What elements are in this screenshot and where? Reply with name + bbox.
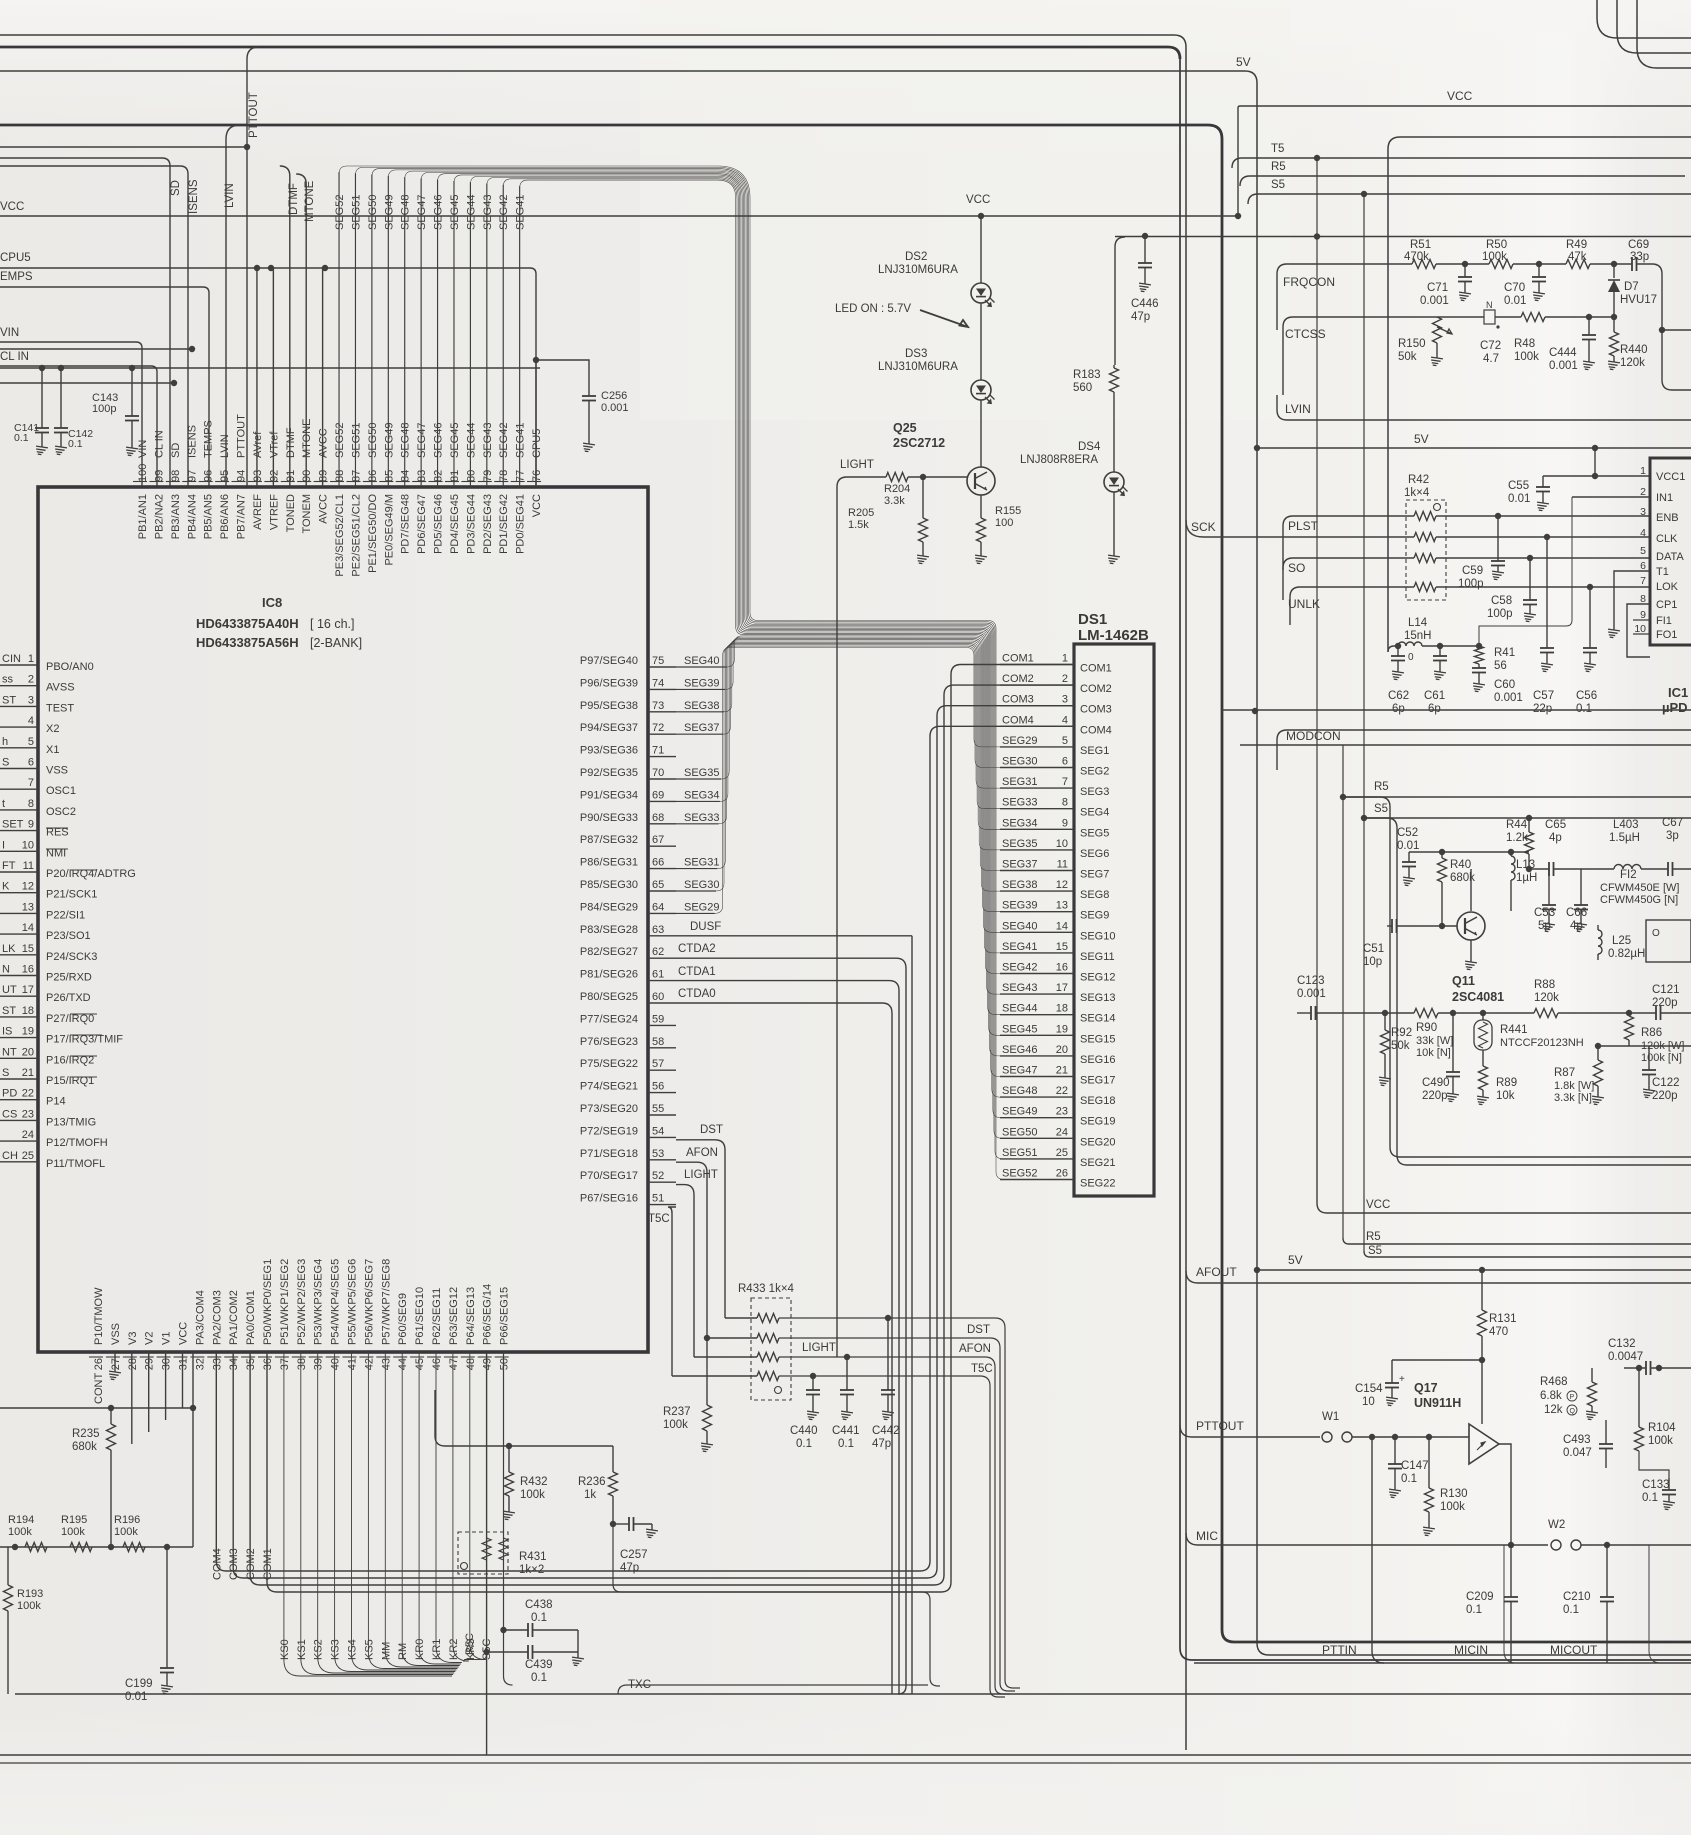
svg-text:100p: 100p: [92, 403, 116, 415]
svg-text:V1: V1: [161, 1332, 173, 1345]
svg-text:SEG16: SEG16: [1080, 1054, 1115, 1066]
wire R433 row1: [725, 1317, 757, 1319]
svg-text:11: 11: [1057, 859, 1068, 871]
svg-text:17: 17: [22, 984, 34, 996]
svg-text:12: 12: [1056, 879, 1068, 891]
svg-text:0.01: 0.01: [1508, 493, 1530, 505]
svg-text:P61/SEG10: P61/SEG10: [414, 1287, 426, 1345]
svg-text:0.1: 0.1: [796, 1438, 812, 1450]
svg-text:COM3: COM3: [228, 1548, 240, 1580]
svg-text:LIGHT: LIGHT: [802, 1342, 836, 1354]
svg-text:C438: C438: [525, 1599, 553, 1611]
svg-text:25: 25: [1056, 1147, 1068, 1159]
svg-text:ST: ST: [2, 1005, 16, 1017]
wire LIGHT to base with R204: [847, 476, 886, 478]
svg-text:PA2/COM3: PA2/COM3: [211, 1290, 223, 1345]
svg-text:P90/SEG33: P90/SEG33: [580, 812, 638, 824]
svg-text:P13/TMIG: P13/TMIG: [46, 1116, 96, 1128]
svg-text:19: 19: [1056, 1023, 1068, 1035]
svg-text:PTTIN: PTTIN: [1322, 1643, 1357, 1657]
wire T1 to ground: [1614, 571, 1650, 630]
svg-text:PD1/SEG42: PD1/SEG42: [498, 494, 510, 554]
svg-text:SEG46: SEG46: [433, 195, 445, 230]
svg-text:P22/SI1: P22/SI1: [46, 909, 85, 921]
label COM4-COM1 rotated: [211, 1548, 274, 1580]
wire y1408 line: [0, 1407, 193, 1409]
svg-text:SEG50: SEG50: [1002, 1126, 1037, 1138]
net MODCON line: [1222, 709, 1691, 711]
svg-text:DTMF: DTMF: [285, 427, 297, 458]
svg-text:PTTOUT: PTTOUT: [1196, 1419, 1244, 1433]
IC8 top pin labels and numbers: [133, 414, 543, 577]
svg-text:0.1: 0.1: [1576, 703, 1592, 715]
svg-text:CLK: CLK: [1656, 533, 1678, 545]
junction R204-R205: [920, 474, 926, 480]
svg-text:C446: C446: [1131, 298, 1159, 310]
svg-text:[ 16 ch.]: [ 16 ch.]: [310, 617, 354, 631]
svg-text:0.1: 0.1: [14, 432, 29, 444]
svg-text:Q: Q: [1570, 1408, 1576, 1415]
svg-text:100k: 100k: [8, 1526, 32, 1538]
svg-text:TEST: TEST: [46, 702, 74, 714]
svg-text:C71: C71: [1427, 282, 1448, 294]
svg-text:COM1: COM1: [1002, 653, 1034, 665]
wire CPU5 column: [535, 360, 537, 487]
svg-text:26: 26: [1056, 1168, 1068, 1180]
svg-text:PB4/AN4: PB4/AN4: [186, 494, 198, 539]
svg-text:R131: R131: [1489, 1313, 1517, 1325]
svg-text:48: 48: [465, 1358, 477, 1370]
svg-text:PA1/COM2: PA1/COM2: [228, 1290, 240, 1345]
svg-text:LED ON : 5.7V: LED ON : 5.7V: [835, 303, 911, 315]
label SEG52-41 rotated upper: [334, 195, 527, 230]
wire IN1 drop: [1479, 497, 1572, 646]
svg-text:C490: C490: [1422, 1077, 1450, 1089]
svg-text:VSS: VSS: [110, 1323, 122, 1345]
svg-text:P21/SCK1: P21/SCK1: [46, 889, 97, 901]
svg-text:SEG42: SEG42: [498, 423, 510, 458]
svg-text:59: 59: [652, 1013, 664, 1025]
svg-text:82: 82: [433, 470, 445, 482]
svg-text:100: 100: [137, 464, 149, 482]
junction right edge stub: [1659, 327, 1665, 333]
svg-text:P51/WKP1/SEG2: P51/WKP1/SEG2: [279, 1259, 291, 1345]
capacitor C142: [60, 368, 62, 428]
svg-text:SEG50: SEG50: [367, 423, 379, 458]
svg-text:COM4: COM4: [1002, 714, 1034, 726]
svg-text:C257: C257: [620, 1549, 648, 1561]
svg-text:R196: R196: [114, 1514, 140, 1526]
svg-text:22p: 22p: [1533, 703, 1552, 715]
svg-text:22: 22: [1056, 1085, 1068, 1097]
svg-text:LIGHT: LIGHT: [684, 1169, 718, 1181]
svg-text:15: 15: [22, 943, 34, 955]
svg-text:COM1: COM1: [262, 1548, 274, 1580]
svg-text:9: 9: [1062, 817, 1068, 829]
svg-text:SEG39: SEG39: [684, 677, 719, 689]
svg-text:3p: 3p: [1666, 830, 1679, 842]
svg-text:UT: UT: [2, 984, 17, 996]
svg-text:SEG42: SEG42: [1002, 962, 1037, 974]
svg-text:T5: T5: [1271, 143, 1284, 155]
svg-text:PLST: PLST: [1288, 519, 1319, 533]
svg-text:56: 56: [652, 1081, 664, 1093]
svg-text:P63/SEG12: P63/SEG12: [448, 1287, 460, 1345]
svg-text:44: 44: [397, 1358, 409, 1370]
wire PTTIN MICIN MICOUT drops: [1372, 1437, 1384, 1663]
svg-text:R50: R50: [1486, 239, 1507, 251]
svg-text:38: 38: [296, 1358, 308, 1370]
svg-text:45: 45: [414, 1358, 426, 1370]
svg-text:SEG35: SEG35: [684, 767, 719, 779]
svg-text:85: 85: [383, 470, 395, 482]
svg-text:17: 17: [1056, 982, 1068, 994]
svg-text:100k: 100k: [520, 1489, 545, 1501]
svg-text:PD3/SEG44: PD3/SEG44: [465, 494, 477, 554]
svg-text:2SC4081: 2SC4081: [1452, 990, 1504, 1004]
svg-text:13: 13: [1056, 900, 1068, 912]
svg-text:VIN: VIN: [137, 440, 149, 458]
svg-text:MM: MM: [380, 1642, 392, 1660]
svg-text:X1: X1: [46, 744, 59, 756]
junction SD y390: [171, 380, 177, 386]
svg-text:R42: R42: [1408, 474, 1429, 486]
svg-text:23: 23: [1056, 1106, 1068, 1118]
svg-text:R440: R440: [1620, 344, 1648, 356]
svg-text:RM: RM: [397, 1643, 409, 1660]
svg-text:SEG30: SEG30: [1002, 756, 1037, 768]
svg-text:SEG51: SEG51: [350, 423, 362, 458]
svg-text:98: 98: [170, 470, 182, 482]
svg-text:18: 18: [1056, 1003, 1068, 1015]
svg-text:Q25: Q25: [893, 421, 917, 435]
svg-text:IC1: IC1: [1668, 685, 1688, 700]
svg-text:FT: FT: [2, 860, 16, 872]
wire top bus line 2 (PTTOUT feed, thick): [0, 47, 1180, 59]
svg-text:C123: C123: [1297, 975, 1325, 987]
svg-text:42: 42: [363, 1358, 375, 1370]
svg-text:KS5: KS5: [363, 1639, 375, 1660]
svg-text:FI2: FI2: [1620, 869, 1637, 881]
svg-text:VTref: VTref: [268, 431, 280, 458]
svg-text:93: 93: [252, 470, 264, 482]
svg-text:CTCSS: CTCSS: [1285, 327, 1326, 341]
svg-text:62: 62: [652, 946, 664, 958]
svg-text:CPU5: CPU5: [0, 252, 31, 264]
svg-text:47p: 47p: [872, 1438, 891, 1450]
svg-text:32: 32: [194, 1358, 206, 1370]
svg-text:PTTOUT: PTTOUT: [236, 414, 248, 458]
svg-text:R44: R44: [1506, 819, 1528, 831]
svg-text:100p: 100p: [1458, 578, 1484, 590]
svg-text:COM4: COM4: [211, 1548, 223, 1580]
svg-text:1: 1: [1062, 653, 1068, 665]
svg-text:29: 29: [144, 1358, 156, 1370]
svg-text:P66/SEG15: P66/SEG15: [499, 1287, 511, 1345]
svg-text:TXC: TXC: [628, 1679, 651, 1691]
svg-text:KS3: KS3: [330, 1639, 342, 1660]
svg-text:SEG51: SEG51: [350, 195, 362, 230]
svg-text:73: 73: [652, 700, 664, 712]
svg-text:SEG37: SEG37: [684, 722, 719, 734]
svg-text:IC8: IC8: [262, 595, 282, 610]
wire R433 row3 LIGHT AFON: [694, 1356, 757, 1358]
svg-text:P62/SEG11: P62/SEG11: [431, 1288, 443, 1345]
svg-text:39: 39: [313, 1358, 325, 1370]
svg-text:R5: R5: [1366, 1231, 1381, 1243]
svg-text:SEG8: SEG8: [1080, 889, 1109, 901]
svg-text:MODCON: MODCON: [1286, 729, 1341, 743]
svg-text:P94/SEG37: P94/SEG37: [580, 722, 638, 734]
svg-text:47p: 47p: [620, 1562, 639, 1574]
wire Q17 output: [1499, 1444, 1511, 1545]
svg-text:SEG51: SEG51: [1002, 1147, 1037, 1159]
svg-text:0.001: 0.001: [1494, 692, 1523, 704]
junction C70: [1536, 261, 1542, 267]
svg-text:3.3k [N]: 3.3k [N]: [1554, 1092, 1592, 1104]
svg-text:R41: R41: [1494, 647, 1515, 659]
junction R92: [1382, 1010, 1388, 1016]
svg-text:T5C: T5C: [971, 1363, 993, 1375]
svg-text:AVSS: AVSS: [46, 682, 75, 694]
wire 5V vertical right: [1254, 445, 1260, 451]
svg-text:Q11: Q11: [1452, 974, 1475, 988]
svg-text:DS4: DS4: [1078, 441, 1101, 453]
svg-text:P92/SEG35: P92/SEG35: [580, 767, 638, 779]
svg-text:AFON: AFON: [959, 1343, 991, 1355]
svg-text:VCC: VCC: [966, 194, 990, 206]
junction ISENS y355: [189, 346, 195, 352]
svg-text:0.001: 0.001: [1297, 988, 1326, 1000]
svg-text:68: 68: [652, 812, 664, 824]
svg-text:PB3/AN3: PB3/AN3: [170, 494, 182, 539]
svg-text:SEG3: SEG3: [1080, 786, 1109, 798]
svg-text:R130: R130: [1440, 1488, 1468, 1500]
svg-text:X2: X2: [46, 723, 59, 735]
svg-text:R204: R204: [884, 483, 910, 495]
capacitor C141: [41, 368, 43, 428]
svg-text:C61: C61: [1424, 690, 1445, 702]
svg-text:P12/TMOFH: P12/TMOFH: [46, 1137, 108, 1149]
svg-text:C147: C147: [1401, 1460, 1429, 1472]
svg-text:R104: R104: [1648, 1422, 1676, 1434]
svg-text:96: 96: [203, 470, 215, 482]
svg-text:56: 56: [1494, 660, 1507, 672]
svg-text:84: 84: [400, 470, 412, 482]
svg-text:ST: ST: [2, 694, 16, 706]
junction PTTOUT x bus: [244, 144, 250, 150]
svg-text:94: 94: [236, 470, 248, 482]
svg-text:SEG45: SEG45: [449, 195, 461, 230]
svg-text:SEG2: SEG2: [1080, 766, 1109, 778]
svg-text:8: 8: [1062, 797, 1068, 809]
svg-text:20: 20: [1056, 1044, 1068, 1056]
svg-text:COM3: COM3: [1080, 704, 1112, 716]
svg-text:10: 10: [1056, 838, 1068, 850]
wire PTTOUT vertical: [247, 47, 259, 487]
junction C56 on UNLK: [1587, 584, 1593, 590]
svg-text:C493: C493: [1563, 1434, 1591, 1446]
svg-text:AVCC: AVCC: [318, 494, 330, 524]
svg-text:PA3/COM4: PA3/COM4: [194, 1290, 206, 1345]
svg-text:89: 89: [318, 470, 330, 482]
svg-text:6: 6: [1640, 560, 1646, 572]
svg-text:21: 21: [22, 1067, 34, 1079]
svg-text:SEG40: SEG40: [1002, 920, 1037, 932]
svg-text:100k [N]: 100k [N]: [1641, 1052, 1682, 1064]
svg-text:1k: 1k: [584, 1489, 596, 1501]
svg-text:1k×2: 1k×2: [519, 1564, 544, 1576]
svg-text:MICOUT: MICOUT: [1550, 1643, 1598, 1657]
svg-text:100k: 100k: [663, 1419, 688, 1431]
svg-text:C199: C199: [125, 1678, 153, 1690]
svg-text:O: O: [1652, 928, 1660, 939]
overbar RES NMI IRQ labels: [46, 827, 68, 829]
svg-text:72: 72: [652, 722, 664, 734]
svg-text:2: 2: [1062, 673, 1068, 685]
svg-text:P67/SEG16: P67/SEG16: [580, 1193, 638, 1205]
svg-text:SEG45: SEG45: [449, 423, 461, 458]
svg-text:CL IN: CL IN: [153, 430, 165, 458]
svg-text:0.001: 0.001: [1549, 360, 1578, 372]
svg-text:SEG44: SEG44: [465, 195, 477, 230]
svg-text:3.3k: 3.3k: [884, 495, 905, 507]
svg-text:49: 49: [482, 1358, 494, 1370]
svg-text:LOK: LOK: [1656, 581, 1679, 593]
svg-text:LNJ310M6URA: LNJ310M6URA: [878, 361, 958, 373]
svg-text:21: 21: [1056, 1065, 1068, 1077]
svg-text:R235: R235: [72, 1428, 100, 1440]
junction R237 row2: [704, 1335, 710, 1341]
wire CP1 FO1 loop: [1627, 604, 1650, 657]
svg-text:P84/SEG29: P84/SEG29: [580, 901, 638, 913]
svg-text:µPD: µPD: [1662, 700, 1688, 715]
svg-text:PB1/AN1: PB1/AN1: [137, 494, 149, 539]
svg-text:SEG48: SEG48: [400, 423, 412, 458]
wire IC8 top pin stubs (no-net pins): [257, 268, 323, 487]
svg-text:87: 87: [350, 470, 362, 482]
svg-text:12: 12: [22, 881, 34, 893]
svg-text:P74/SEG21: P74/SEG21: [580, 1081, 638, 1093]
svg-text:0.001: 0.001: [601, 402, 629, 414]
svg-text:C67: C67: [1662, 817, 1683, 829]
svg-text:88: 88: [334, 470, 346, 482]
svg-text:AVref: AVref: [252, 431, 264, 458]
svg-text:SEG47: SEG47: [416, 195, 428, 230]
svg-text:R205: R205: [848, 507, 874, 519]
svg-text:100k: 100k: [61, 1526, 85, 1538]
svg-text:36: 36: [262, 1358, 274, 1370]
svg-text:4.7: 4.7: [1483, 353, 1499, 365]
svg-text:120k: 120k: [1620, 357, 1645, 369]
svg-text:COM4: COM4: [1080, 724, 1112, 736]
svg-text:77: 77: [515, 470, 527, 482]
svg-text:ENB: ENB: [1656, 512, 1679, 524]
svg-text:VSS: VSS: [46, 765, 68, 777]
svg-text:DATA: DATA: [1656, 551, 1684, 563]
wire DTMF drop: [280, 166, 290, 487]
svg-text:R5: R5: [1374, 781, 1389, 793]
svg-text:LIGHT: LIGHT: [840, 459, 874, 471]
svg-text:R92: R92: [1391, 1027, 1412, 1039]
svg-text:P25/RXD: P25/RXD: [46, 972, 92, 984]
svg-text:SEG40: SEG40: [684, 655, 719, 667]
svg-text:PD5/SEG46: PD5/SEG46: [433, 494, 445, 554]
svg-text:SEG37: SEG37: [1002, 859, 1037, 871]
svg-text:SD: SD: [170, 180, 182, 196]
svg-text:P77/SEG24: P77/SEG24: [580, 1013, 638, 1025]
svg-text:71: 71: [652, 745, 664, 757]
svg-text:16: 16: [22, 964, 34, 976]
svg-text:70: 70: [652, 767, 664, 779]
wire R5C S5C drops: [486, 1352, 488, 1755]
svg-text:PB6/AN6: PB6/AN6: [219, 494, 231, 539]
svg-text:P82/SEG27: P82/SEG27: [580, 946, 638, 958]
svg-text:R441: R441: [1500, 1024, 1528, 1036]
svg-text:PE3/SEG52/CL1: PE3/SEG52/CL1: [334, 494, 346, 577]
svg-text:P81/SEG26: P81/SEG26: [580, 969, 638, 981]
svg-text:SEG9: SEG9: [1080, 910, 1109, 922]
svg-text:P72/SEG19: P72/SEG19: [580, 1125, 638, 1137]
svg-text:0.1: 0.1: [1642, 1492, 1658, 1504]
svg-text:C210: C210: [1563, 1591, 1591, 1603]
svg-text:560: 560: [1073, 382, 1092, 394]
svg-text:28: 28: [127, 1358, 139, 1370]
svg-text:PTTOUT: PTTOUT: [248, 92, 260, 138]
svg-text:DS3: DS3: [905, 348, 927, 360]
wire bottom bus lines right: [1194, 1662, 1691, 1664]
svg-text:FO1: FO1: [1656, 629, 1677, 641]
svg-text:83: 83: [416, 470, 428, 482]
svg-text:S5: S5: [1374, 803, 1388, 815]
svg-text:PBO/AN0: PBO/AN0: [46, 661, 94, 673]
svg-text:78: 78: [498, 470, 510, 482]
IC8 right pin rows: [580, 655, 720, 1205]
svg-text:100: 100: [995, 517, 1013, 529]
svg-text:76: 76: [531, 470, 543, 482]
label KS0..KR3 rotated: [279, 1639, 477, 1660]
svg-text:P53/WKP3/SEG4: P53/WKP3/SEG4: [313, 1259, 325, 1345]
svg-text:0.1: 0.1: [531, 1612, 547, 1624]
svg-text:CTDA0: CTDA0: [678, 988, 716, 1000]
svg-text:P96/SEG39: P96/SEG39: [580, 677, 638, 689]
svg-text:KR2: KR2: [448, 1639, 460, 1660]
svg-text:1: 1: [28, 653, 34, 665]
svg-text:4: 4: [1062, 714, 1068, 726]
svg-text:55: 55: [652, 1103, 664, 1115]
svg-text:COM2: COM2: [1080, 683, 1112, 695]
svg-text:220p: 220p: [1652, 1090, 1678, 1102]
svg-text:R40: R40: [1450, 859, 1471, 871]
svg-text:33k [W]: 33k [W]: [1416, 1035, 1453, 1047]
wire top bus line 1: [0, 35, 1186, 1750]
svg-text:SEG43: SEG43: [482, 195, 494, 230]
svg-text:CL IN: CL IN: [0, 351, 29, 363]
junction C71: [1462, 261, 1468, 267]
svg-text:DST: DST: [700, 1124, 723, 1136]
svg-text:KS0: KS0: [279, 1639, 291, 1660]
svg-text:5: 5: [1062, 735, 1068, 747]
ground pin27 VSS: [114, 1352, 116, 1372]
svg-text:100k: 100k: [1648, 1435, 1673, 1447]
svg-text:SEG18: SEG18: [1080, 1095, 1115, 1107]
svg-text:15nH: 15nH: [1404, 630, 1432, 642]
svg-text:SEG38: SEG38: [1002, 879, 1037, 891]
svg-text:SEG44: SEG44: [1002, 1003, 1037, 1015]
svg-text:50k: 50k: [1398, 351, 1417, 363]
svg-text:5V: 5V: [1414, 432, 1429, 446]
svg-text:SEG13: SEG13: [1080, 992, 1115, 1004]
